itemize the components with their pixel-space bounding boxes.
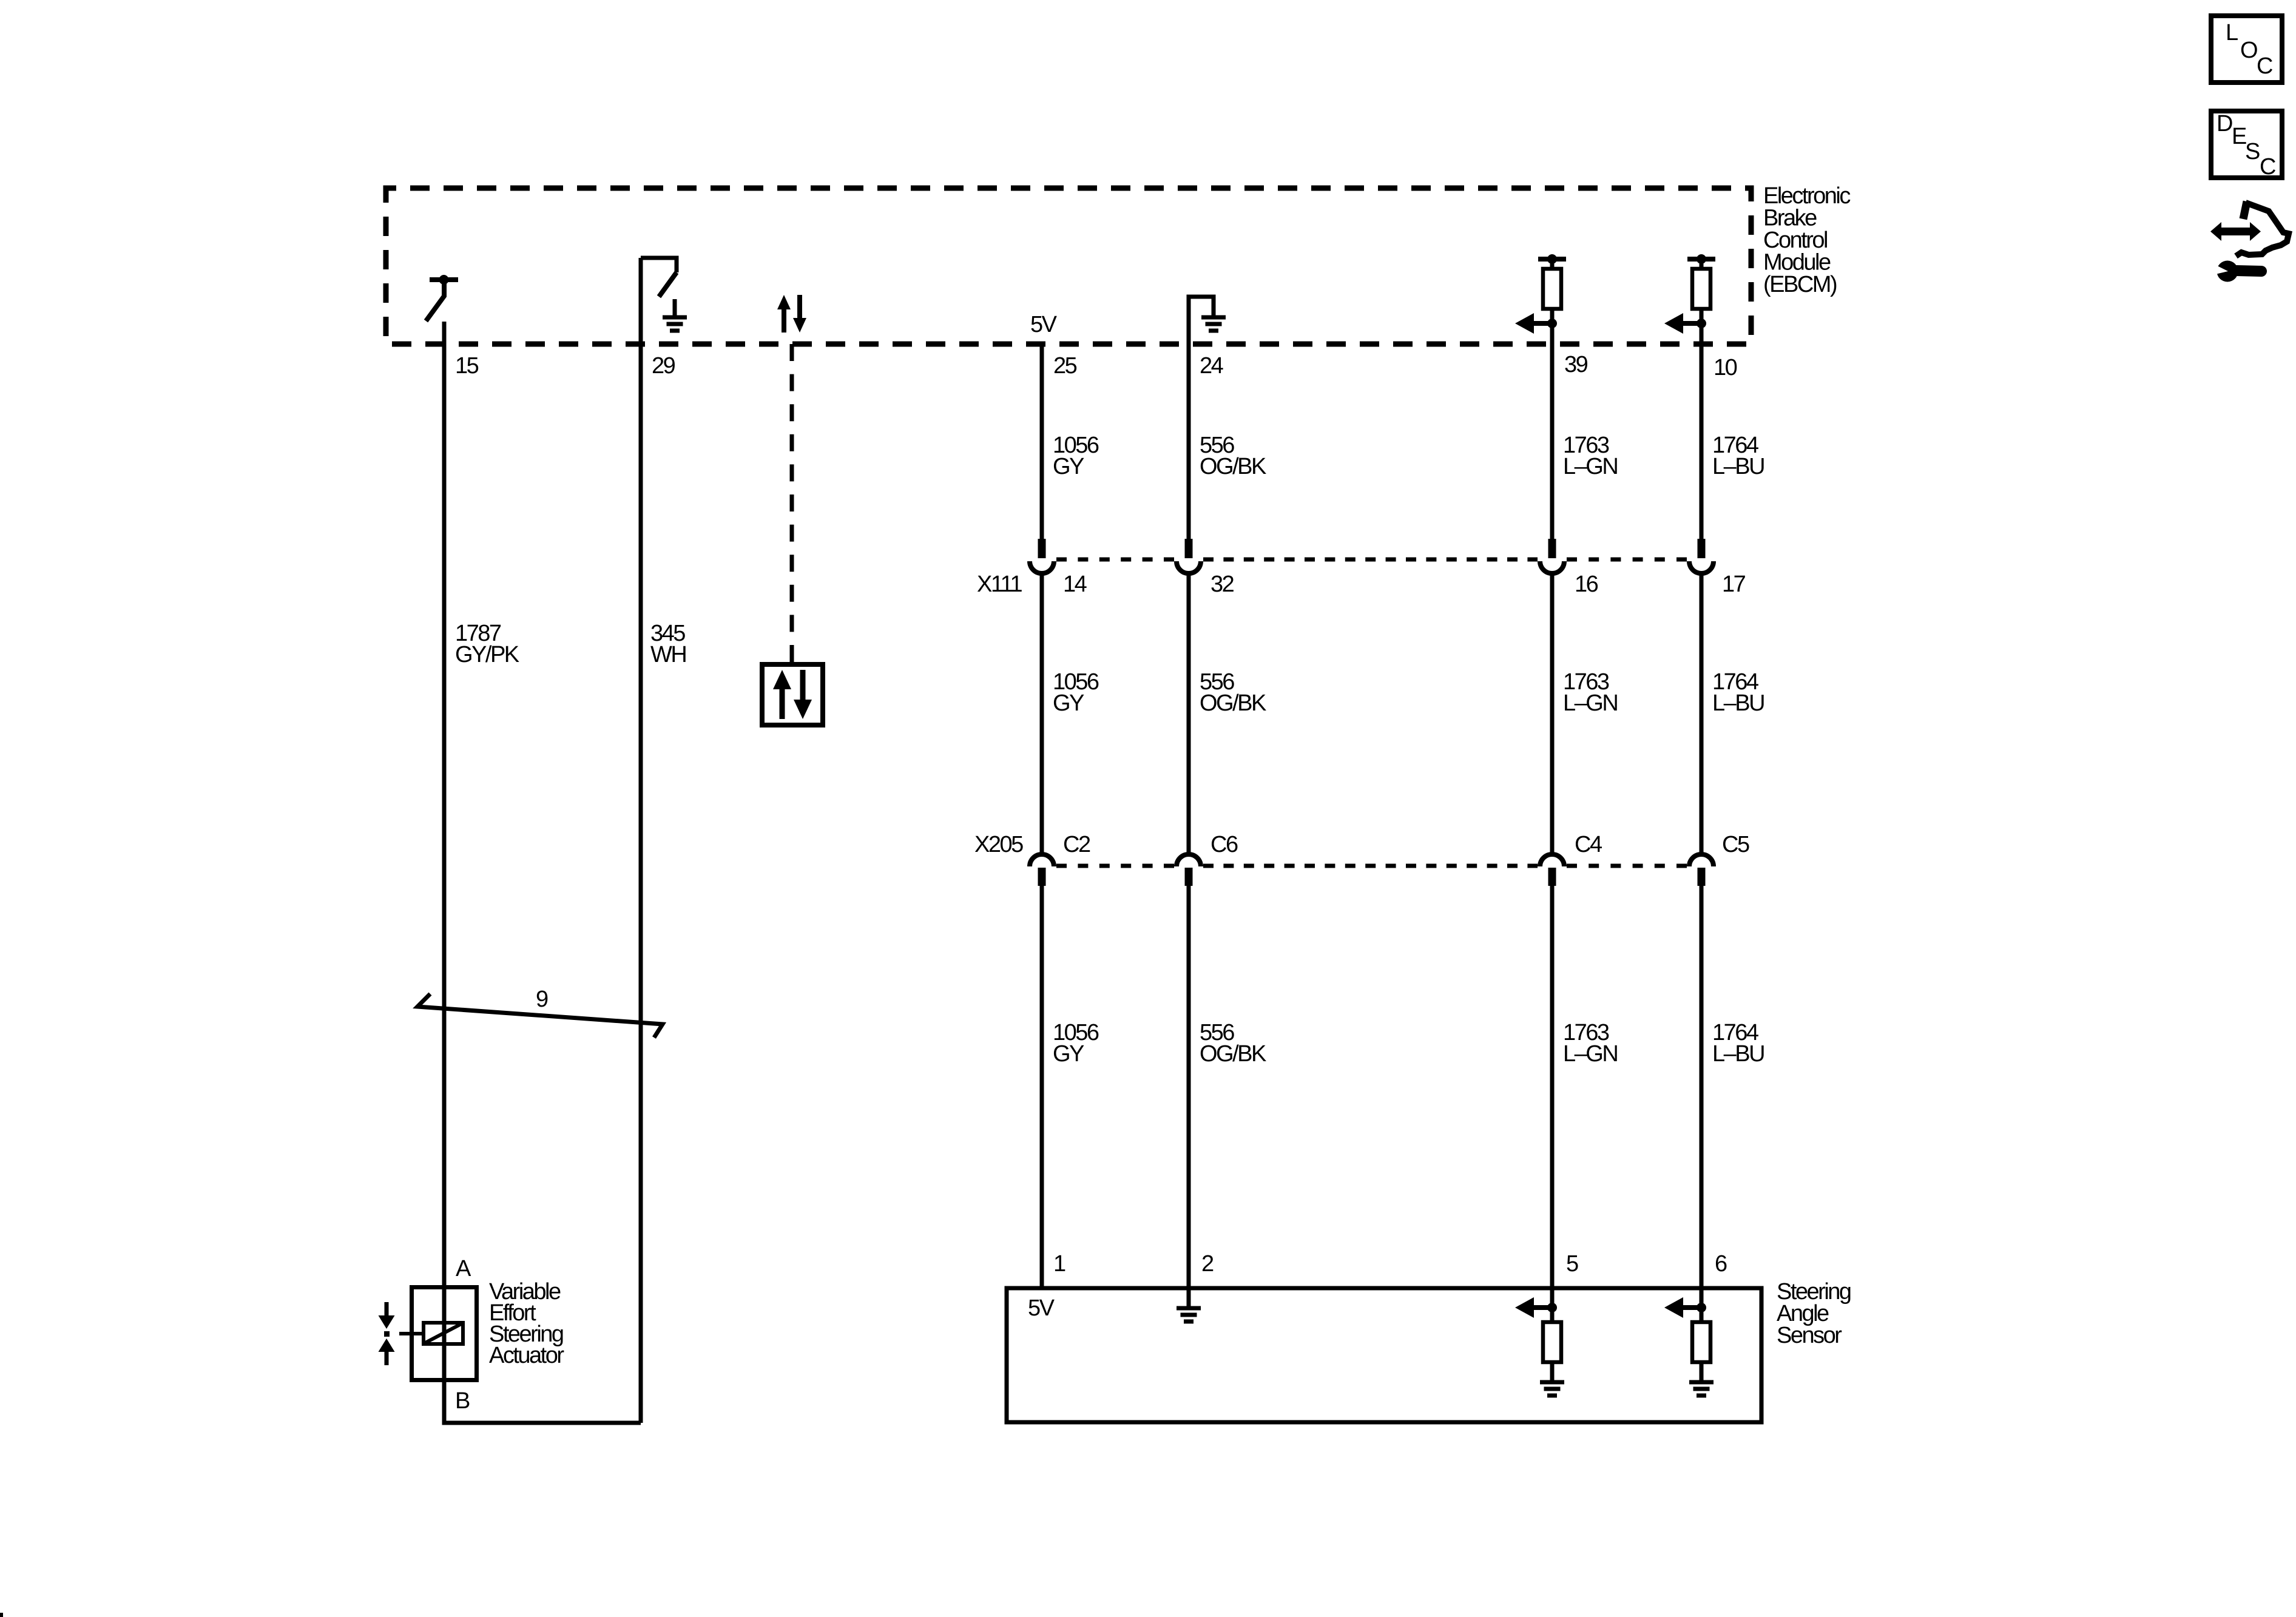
svg-text:14: 14 (1063, 572, 1087, 597)
svg-text:C: C (2257, 53, 2272, 79)
X111 connector pin 17 (1689, 539, 1714, 573)
DESC legend box (2211, 111, 2282, 178)
service icon double arrow (2210, 222, 2261, 241)
harness crossover line 9 (417, 994, 663, 1038)
svg-text:25: 25 (1053, 353, 1077, 379)
X205 connector pin C4 (1540, 854, 1564, 886)
internal elbow to ground at pin 29 (641, 258, 677, 272)
wire 1763 L-GN lower segment (1550, 886, 1555, 1308)
svg-text:5V: 5V (1030, 312, 1058, 337)
svg-text:L–GN: L–GN (1563, 1041, 1617, 1067)
wire 1056 GY segment from pin 25 to X111 (1040, 344, 1044, 539)
svg-text:GY: GY (1053, 690, 1084, 716)
svg-text:6: 6 (1715, 1251, 1727, 1277)
LOC legend box (2211, 16, 2282, 83)
switch blade (open) at pin 15 (426, 282, 444, 321)
X111 connector pin 14 (1030, 539, 1054, 573)
svg-text:10: 10 (1714, 355, 1737, 380)
valve up arrow (379, 1338, 395, 1352)
wire 556 OG/BK lower segment (1187, 886, 1191, 1291)
svg-text:B: B (455, 1388, 470, 1414)
svg-text:OG/BK: OG/BK (1200, 1041, 1266, 1067)
svg-text:WH: WH (650, 642, 686, 667)
svg-text:32: 32 (1210, 572, 1234, 597)
X111 connector pin 16 (1540, 539, 1564, 573)
svg-text:L–GN: L–GN (1563, 454, 1617, 479)
X205 connector pin C6 (1177, 854, 1201, 886)
wire from pin 10 resistor to X111 (1700, 259, 1704, 539)
svg-text:E: E (2232, 124, 2246, 149)
svg-text:D: D (2217, 111, 2232, 137)
X111 connector pin 32 (1177, 539, 1201, 573)
wire 1764 L-BU lower segment (1700, 886, 1704, 1308)
switch blade stroke at pin 29 ground (659, 272, 677, 297)
wire 1764 L-BU middle segment (1700, 575, 1704, 852)
wire 1056 GY lower segment (1040, 886, 1044, 1287)
X205 connector pin C2 (1030, 854, 1054, 886)
svg-text:O: O (2240, 38, 2257, 63)
Variable Effort Steering Actuator label (489, 1279, 564, 1368)
svg-text:(EBCM): (EBCM) (1763, 272, 1837, 297)
svg-text:5V: 5V (1028, 1295, 1055, 1321)
service icon wrench (2213, 261, 2261, 282)
pull-up resistor with signal arrow at EBCM pin 10 (1664, 254, 1715, 334)
actuator solenoid (424, 1323, 463, 1344)
svg-text:29: 29 (652, 353, 675, 379)
ground symbol inside sensor at pin 2 (1177, 1290, 1201, 1322)
svg-text:16: 16 (1575, 572, 1598, 597)
page corner mark (0, 1613, 3, 1617)
service icon connector outline (2243, 201, 2247, 219)
svg-text:C5: C5 (1722, 832, 1749, 857)
X111 dashed connector line (1056, 558, 1174, 562)
svg-text:39: 39 (1564, 352, 1588, 377)
pull-up resistor with signal arrow at EBCM pin 39 (1515, 254, 1566, 334)
Steering Angle Sensor box (1007, 1288, 1761, 1422)
svg-text:X205: X205 (974, 832, 1023, 857)
serial data link box (762, 664, 823, 725)
serial data down arrow at EBCM (797, 295, 802, 319)
wire from EBCM pin 15 to actuator pin A, elbow to pin B return (444, 322, 641, 1423)
EBCM module dashed box (386, 188, 1751, 344)
svg-text:X111: X111 (977, 572, 1022, 597)
svg-text:24: 24 (1200, 353, 1224, 379)
valve down arrow (385, 1302, 389, 1317)
valve pivot square (384, 1331, 390, 1337)
svg-text:Sensor: Sensor (1777, 1323, 1842, 1348)
svg-text:C4: C4 (1575, 832, 1602, 857)
svg-text:S: S (2245, 139, 2260, 164)
EBCM label text (1763, 183, 1850, 297)
data link down arrow (800, 670, 806, 701)
dashed serial data wire (790, 344, 794, 662)
svg-text:C6: C6 (1210, 832, 1238, 857)
svg-text:OG/BK: OG/BK (1200, 690, 1266, 716)
sensor pull-down resistor with arrow at pin 6 (1664, 1297, 1714, 1396)
svg-text:C2: C2 (1063, 832, 1090, 857)
svg-text:5: 5 (1566, 1251, 1578, 1277)
pin 24 internal ground elbow (1189, 297, 1214, 539)
wire 1763 L-GN middle segment (1550, 575, 1555, 852)
svg-text:2: 2 (1201, 1251, 1214, 1277)
wire from pin 39 resistor to X111 (1550, 259, 1555, 539)
wire from EBCM pin 29 down to actuator return elbow (639, 258, 643, 1423)
svg-text:17: 17 (1722, 572, 1746, 597)
X205 dashed connector line (1056, 864, 1174, 868)
svg-text:15: 15 (455, 353, 479, 379)
svg-text:GY: GY (1053, 1041, 1084, 1067)
Variable Effort Steering Actuator box (412, 1288, 477, 1380)
switch contact bar at pin 15 (430, 277, 458, 282)
svg-text:OG/BK: OG/BK (1200, 454, 1266, 479)
Steering Angle Sensor label (1777, 1279, 1851, 1348)
ground symbol at EBCM pin 24 (1201, 299, 1226, 331)
svg-text:L–BU: L–BU (1712, 690, 1764, 716)
solenoid left lead (399, 1332, 424, 1335)
svg-text:1: 1 (1053, 1251, 1065, 1277)
serial data up arrow at EBCM (782, 308, 786, 333)
wire 1056 GY middle segment (1040, 575, 1044, 852)
svg-text:L–GN: L–GN (1563, 690, 1617, 716)
svg-text:GY: GY (1053, 454, 1084, 479)
ground symbol at EBCM pin 29 (663, 299, 687, 331)
svg-text:L–BU: L–BU (1712, 454, 1764, 479)
svg-text:A: A (456, 1256, 471, 1281)
wire 556 OG/BK middle segment (1187, 575, 1191, 852)
data link up arrow (780, 687, 785, 719)
svg-text:L: L (2226, 20, 2238, 46)
X205 connector pin C5 (1689, 854, 1714, 886)
svg-text:9: 9 (536, 987, 548, 1012)
junction dot on switch contact (439, 275, 449, 285)
sensor pull-down resistor with arrow at pin 5 (1515, 1297, 1564, 1396)
svg-text:L–BU: L–BU (1712, 1041, 1764, 1067)
svg-text:GY/PK: GY/PK (455, 642, 519, 667)
svg-text:Actuator: Actuator (489, 1343, 564, 1368)
svg-text:C: C (2260, 154, 2275, 180)
solenoid diagonal (425, 1324, 461, 1343)
